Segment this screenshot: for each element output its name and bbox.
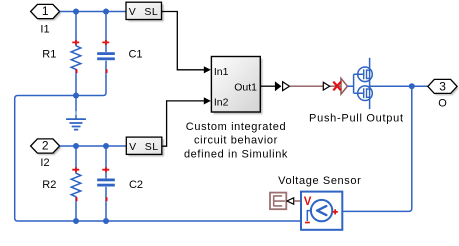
svg-text:V: V xyxy=(129,141,136,153)
svg-text:I2: I2 xyxy=(40,157,49,169)
svg-text:In1: In1 xyxy=(214,66,229,78)
PS output port marker of voltage sensor xyxy=(270,193,286,210)
wire: gate input and bus xyxy=(347,74,363,93)
svg-text:circuit behavior: circuit behavior xyxy=(194,135,278,147)
capacitor C1 xyxy=(97,12,115,74)
wire: drain/source rail xyxy=(369,58,371,109)
svg-text:In2: In2 xyxy=(214,97,229,109)
voltage sensor block V1 (V/SL) xyxy=(126,2,164,21)
resistor R2 xyxy=(71,146,81,221)
svg-text:I1: I1 xyxy=(40,23,49,35)
svg-text:Out1: Out1 xyxy=(234,81,257,93)
wire: V1 SL output to In1 xyxy=(162,12,211,74)
wire: port 2 rail to voltage sensor block V2 xyxy=(60,145,127,147)
svg-text:Custom integrated: Custom integrated xyxy=(186,121,286,133)
wire: push-pull output to port 3 xyxy=(370,85,428,87)
junction node at R2 top xyxy=(73,143,79,149)
junction node at C2 top xyxy=(103,143,109,149)
svg-text:R1: R1 xyxy=(42,49,56,61)
arrow: implicit converter open arrowhead xyxy=(283,82,290,91)
svg-text:3: 3 xyxy=(439,80,446,94)
svg-text:SL: SL xyxy=(145,141,159,153)
wire: C1/R1 bottom rail down left side to sensor negative rail xyxy=(15,73,308,221)
voltage sensor block V2 (V/SL) xyxy=(126,137,164,156)
junction node at R2 bottom xyxy=(73,218,79,224)
transistor Q1 (top) xyxy=(358,67,373,82)
input port 2 xyxy=(31,139,62,155)
arrow: PS open arrowhead at push-pull input xyxy=(323,82,329,90)
ground xyxy=(66,96,86,130)
label: subsystem caption xyxy=(184,121,288,160)
output port 3 xyxy=(428,79,459,95)
junction node at ground tap xyxy=(73,93,79,99)
svg-text:O: O xyxy=(438,98,447,110)
junction node O xyxy=(409,83,415,89)
junction node at R1 top xyxy=(73,9,79,15)
svg-text:Voltage Sensor: Voltage Sensor xyxy=(278,175,361,187)
junction node at C1 top xyxy=(103,9,109,15)
svg-text:Push-Pull Output: Push-Pull Output xyxy=(309,113,404,125)
svg-text:C1: C1 xyxy=(128,49,142,61)
svg-text:2: 2 xyxy=(42,139,49,153)
transistor Q2 (bottom) xyxy=(358,86,373,101)
subsystem U1: custom integrated circuit xyxy=(211,57,262,115)
wire: Out1 to push-pull input xyxy=(260,85,275,87)
wire: port 1 rail to voltage sensor block V1 xyxy=(60,11,126,13)
arrow: PS open arrowhead at sensor output xyxy=(287,198,294,204)
arrow: Out1 signal arrowhead xyxy=(275,81,282,91)
wire: V2 SL output to In2 xyxy=(162,97,211,146)
capacitor C2 xyxy=(97,146,115,221)
svg-text:defined in Simulink: defined in Simulink xyxy=(184,148,288,160)
junction node at C2 bottom xyxy=(103,218,109,224)
svg-text:C2: C2 xyxy=(129,179,143,191)
wire: sensor V output stub xyxy=(294,200,301,202)
svg-text:SL: SL xyxy=(144,6,158,18)
svg-text:V: V xyxy=(304,196,312,208)
resistor R1 xyxy=(71,12,81,96)
port arrow of push-pull output block xyxy=(341,78,347,94)
svg-text:V: V xyxy=(129,6,136,18)
voltage sensor U2 xyxy=(301,192,342,230)
unresolved connection mark (red X) xyxy=(333,82,341,91)
input port 1 xyxy=(31,4,62,20)
wire: output node down to voltage sensor xyxy=(342,86,411,211)
svg-text:1: 1 xyxy=(42,4,49,18)
svg-text:R2: R2 xyxy=(42,179,56,191)
wire: physical signal line to push-pull xyxy=(290,85,341,87)
